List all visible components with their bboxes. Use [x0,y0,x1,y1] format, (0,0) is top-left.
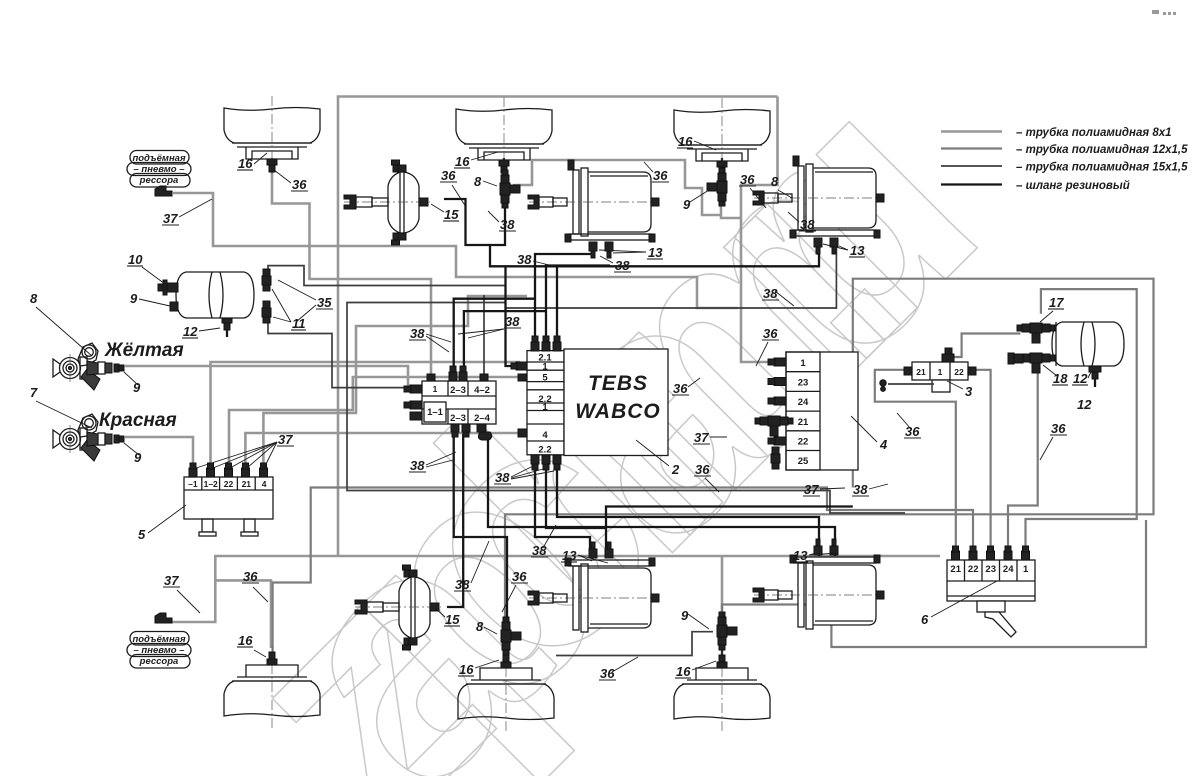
svg-text:36: 36 [653,168,668,183]
hose right chamber port1 to EBS pin3 [454,299,535,373]
svg-text:22: 22 [798,437,809,448]
callout 15 booster bottom [435,608,460,627]
callout 16 bellows1 bottom [237,633,266,657]
hose EBS pin1 down to bottom-left chamber port1 [535,470,590,557]
callout 38 right chamber hose [762,286,794,306]
wire 15x1.5 mid bus to lower long bus [347,303,905,514]
svg-text:TEBS: TEBS [588,372,648,395]
svg-text:38: 38 [455,577,470,592]
callout 36 right of TEBS loop [756,326,779,366]
svg-text:36: 36 [695,462,710,477]
callout 36 near tee8 [440,168,466,207]
wire 8x1 red coupling to block5 [125,437,193,471]
svg-text:4: 4 [262,479,267,489]
svg-text:38: 38 [853,482,868,497]
callout 37 block5 fan [196,432,294,468]
svg-text:– пневмо –: – пневмо – [133,164,185,175]
svg-text:1–2: 1–2 [204,479,218,489]
hose tee8b to bellows2 fitting [506,650,508,658]
callout 36 mid-bottom [502,569,528,612]
svg-text:4: 4 [542,430,548,441]
callout 37 right of EBS [693,430,727,445]
hose manifold pin2 tap [464,311,546,373]
wire 15x1.5 reservoir elbow11 bottom to manifold row1 [268,323,410,388]
callout 38 EBS top wires [458,314,521,338]
svg-text:36: 36 [740,172,755,187]
svg-text:25: 25 [798,456,809,467]
svg-text:36: 36 [600,666,615,681]
hose bottom-left chamber port2 to right [606,507,853,529]
svg-text:21: 21 [798,417,809,428]
coupling head red [53,414,124,461]
callout 38 below tee8 [488,211,516,232]
svg-text:4–2: 4–2 [474,385,490,396]
svg-text:12: 12 [1073,371,1088,386]
svg-text:13: 13 [793,548,808,563]
callout 36 bellows1 line [274,170,308,192]
svg-text:8: 8 [771,174,779,189]
svg-text:36: 36 [441,168,456,183]
svg-text:21: 21 [916,367,926,377]
wire 8x1 tee9 down [721,204,741,218]
wire 12x1.5 legend sample [941,147,1002,149]
lift axle oval callout bottom [127,613,191,668]
callout 9 tee9 bottom [681,608,709,629]
svg-text:13: 13 [850,243,865,258]
svg-text:2.2: 2.2 [538,444,551,455]
svg-text:8: 8 [474,174,482,189]
svg-text:подъёмная: подъёмная [132,634,186,645]
svg-text:Жёлтая: Жёлтая [104,340,184,361]
brake chamber 15 bottom [355,565,441,650]
tee 9 top [707,168,727,206]
svg-text:5: 5 [542,373,548,384]
callout 12 drain left [182,324,220,339]
lift axle oval callout top [127,151,191,197]
wire 15x1.5 legend sample [941,165,1002,167]
svg-text:36: 36 [673,381,688,396]
svg-text:13: 13 [562,548,577,563]
callout 38 left chamber hose [600,256,631,273]
wire 12x1.5 valve3 top elbow to tee17 [950,334,1021,358]
callout 36 tee18 line [1040,421,1067,460]
svg-text:–1: –1 [188,479,198,489]
hose bottom-right chamber port2 to manifold pin [488,438,835,556]
svg-text:10: 10 [128,252,143,267]
hose manifold pin down to bottom booster [447,434,463,607]
svg-text:23: 23 [985,564,996,575]
EBS port strip [511,336,564,470]
wire 8x1 block5 port2 to EBS port strip [211,362,528,471]
callout 16 bellows3 [677,134,716,150]
callout 37 below block4 [803,482,845,497]
svg-text:Красная: Красная [99,410,177,431]
reservoir left [158,272,254,337]
svg-text:23: 23 [798,378,809,389]
callout 15 booster top [431,204,459,222]
svg-text:2–3: 2–3 [450,385,466,396]
hose top booster to EBS pin2 [444,199,490,245]
svg-text:WABCO: WABCO [575,400,661,423]
svg-text:36: 36 [763,326,778,341]
wire 8x1 yellow coupling to manifold [125,366,408,386]
tee 8 top [500,170,520,208]
brake chamber 15 top [344,160,430,245]
callout 10 reservoir fitting [127,252,165,284]
svg-text:36: 36 [292,177,307,192]
wire 8x1 bellows1 to manifold [272,158,431,377]
EBS modulator TEBS WABCO box [564,349,668,456]
svg-text:37: 37 [804,482,819,497]
svg-text:2–4: 2–4 [474,413,491,424]
wire 15x1.5 reservoir elbow11 top to right chamber [268,242,836,308]
svg-text:16: 16 [238,156,253,171]
svg-text:1: 1 [433,384,438,394]
svg-text:35: 35 [317,295,332,310]
callout 18 cross [1043,365,1068,386]
wire 15x1.5 manifold fitting riser [483,295,485,377]
svg-text:9: 9 [681,608,689,623]
callout 36 bottom right line [599,657,638,681]
callout 6 block6 [921,581,997,627]
callout 8 yellow coupling [30,291,92,356]
callout 13 bottom-left chamber [561,548,608,563]
callout 38 bottom hoses [531,525,556,558]
wire 8x1 inner loop tee8 to tee9 [513,160,721,215]
svg-text:36: 36 [512,569,527,584]
hose left chamber port1 to manifold pin [535,254,594,337]
callout 36 right chamber [739,172,766,208]
hose tee8 bottom to EBS pin1 [490,206,819,266]
callout 2 EBS [636,440,680,477]
svg-text:16: 16 [455,154,470,169]
callout 16 bellows2 bottom [458,660,499,677]
air bellows bottom 2 [458,649,554,731]
wire 12x1.5 lift rear feed long diagonal loop [273,488,973,653]
svg-text:37: 37 [278,432,293,447]
svg-text:12: 12 [183,324,198,339]
svg-text:2–3: 2–3 [450,413,466,424]
air bellows top 1 [224,96,320,174]
svg-text:3: 3 [965,384,973,399]
svg-text:38: 38 [615,258,630,273]
svg-text:38: 38 [410,458,425,473]
svg-text:18: 18 [1053,371,1068,386]
svg-text:15: 15 [445,612,460,627]
svg-text:5: 5 [138,527,146,542]
callout 5 block5 [138,505,186,542]
block 4 [755,352,858,470]
callout 12 below reservoir [1077,397,1092,412]
svg-text:22: 22 [968,564,979,575]
svg-text:11: 11 [292,316,306,331]
svg-text:38: 38 [505,314,520,329]
coupling head yellow [53,343,124,390]
callout 12 beside 18 [1072,371,1091,386]
callout 13 right chamber [823,243,865,258]
callout 38 manifold wires [409,326,451,352]
svg-text:16: 16 [238,633,253,648]
callout 16 bellows1 [237,153,267,171]
callout 9 reservoir fitting [130,291,170,306]
hose EBS pin3 down to bottom-right chamber port1 [557,470,819,556]
tee 9 bottom [717,612,737,650]
callout 38 right chamber [788,212,816,232]
svg-text:17: 17 [1049,295,1064,310]
svg-text:– трубка полиамидная 12х1,5: – трубка полиамидная 12х1,5 [1016,144,1188,156]
svg-text:подъёмная: подъёмная [132,153,186,164]
svg-text:7: 7 [30,385,38,400]
hose manifold pin down to tee8b [454,434,507,629]
svg-text:22: 22 [224,479,234,489]
svg-text:16: 16 [678,134,693,149]
svg-text:21: 21 [950,564,961,575]
svg-text:1: 1 [938,367,943,377]
spring brake chamber bottom right [753,539,884,629]
elbow 11 top [262,269,271,291]
reservoir right [1052,322,1124,387]
hose EBS pin3 tap [556,266,558,337]
svg-text:15: 15 [444,207,459,222]
callout 36 below EBS [694,462,719,492]
svg-text:рессора: рессора [139,656,179,667]
wire 12x1.5 inner right loop to block6 pin1 [1026,289,1137,549]
callout 37 lift bottom [163,573,200,613]
callout 16 bellows2 [454,152,498,169]
wire 8x1 top frame [338,97,778,557]
block 5 [184,463,273,536]
legend texts [1016,127,1188,192]
air bellows bottom 1 [224,646,320,728]
wire 12x1.5 tee18 down to block6 pin24 [1008,372,1038,549]
svg-text:– трубка полиамидная 15х1,5: – трубка полиамидная 15х1,5 [1016,162,1188,174]
top-right corner marks [1152,10,1176,15]
svg-text:1: 1 [542,361,548,372]
callout 13 bottom-right chamber [792,548,838,563]
callout 9 yellow stem [124,372,141,395]
svg-text:9: 9 [133,380,141,395]
spring brake chamber top left [528,160,659,258]
wire 15x1.5 vertical x505 [506,266,517,366]
svg-text:38: 38 [517,252,532,267]
svg-text:38: 38 [410,326,425,341]
callout 4 block4 [851,416,888,452]
hose left chamber port2 to manifold pin2 [546,266,610,338]
callout 36 bellows1 bottom [242,569,268,602]
svg-text:рессора: рессора [139,175,179,186]
air bellows top 2 [456,97,552,175]
svg-text:36: 36 [243,569,258,584]
svg-text:22: 22 [954,367,964,377]
hose EBS pin2 down to bottom-left chamber port2 [546,470,606,557]
svg-text:12: 12 [1077,397,1092,412]
elbow 11 bottom [262,301,271,323]
svg-text:24: 24 [798,397,809,408]
wire 8x1 tee9b up to lift line [721,556,724,618]
callout 11 elbows [272,289,306,331]
svg-text:16: 16 [459,662,474,677]
callout 9 red stem [124,443,142,465]
callout 13 left chamber [599,245,663,260]
callout 7 red coupling [30,385,92,428]
callout 37 lift line top [162,199,212,226]
svg-text:9: 9 [130,291,138,306]
valve 3 [880,348,976,392]
callout 9 tee9 [683,190,709,212]
callout 36 right of TEBS box [672,378,700,396]
callout 38 pin3 line [516,252,553,267]
svg-text:38: 38 [763,286,778,301]
svg-text:37: 37 [163,211,178,226]
svg-text:38: 38 [495,470,510,485]
wire 8x1 bottom-left bellows riser [215,580,271,648]
svg-text:2: 2 [671,462,680,477]
air bellows bottom 3 [674,649,770,731]
callout 16 bellows3 bottom [675,661,716,679]
callout 35 line [278,280,333,322]
svg-text:16: 16 [676,664,691,679]
callout 38 EBS bottom wires [494,466,554,485]
svg-text:4: 4 [879,437,888,452]
callout 38 left gray lines [409,452,456,473]
tee 17 [1017,323,1055,343]
svg-text:– шланг резиновый: – шланг резиновый [1016,180,1130,192]
svg-text:1: 1 [1023,564,1029,575]
hose legend sample [941,183,1002,185]
svg-text:9: 9 [683,197,691,212]
callout 38 below block4 [852,482,888,497]
wire 12x1.5 big right loop [505,279,1154,623]
hose bellows2 fitting to tee8 [503,158,505,172]
callout 38 bottom band [454,541,489,592]
callout 36 inner loop [644,162,669,183]
wire 8x1 block5 port3 to EBS strip row2 [229,377,527,471]
wire 12x1.5 bottom right bellows loop [722,520,1146,647]
svg-text:36: 36 [1051,421,1066,436]
callout 8 tee top [474,174,497,189]
svg-text:36: 36 [905,424,920,439]
svg-text:– пневмо –: – пневмо – [133,645,185,656]
svg-text:13: 13 [648,245,663,260]
wire 8x1 lift axle top line 37 [173,193,738,308]
svg-text:37: 37 [694,430,709,445]
callout 17 tee [1040,295,1064,322]
wire 8x1 right of top frame to block4 port1 [741,97,778,363]
svg-text:– трубка полиамидная 8х1: – трубка полиамидная 8х1 [1016,127,1172,139]
svg-text:1: 1 [542,402,548,413]
svg-text:1–1: 1–1 [427,407,444,418]
spring brake chamber top right [753,156,884,254]
callout 36 right mid [897,413,921,439]
svg-text:38: 38 [800,217,815,232]
cross 18 [1008,353,1055,373]
tee 8 bottom [501,617,521,655]
wire 8x1 block5 port4 to EBS strip row4 [245,433,519,471]
svg-text:1: 1 [800,358,806,369]
manifold block [404,366,496,440]
wire 15x1.5 tee9b to bellows2 [556,632,713,656]
callout 3 valve [947,381,973,399]
spring brake chamber bottom left [528,542,659,632]
drain valve 12 right reservoir [1089,366,1101,372]
wire 8x1 legend sample [941,130,1002,133]
svg-text:37: 37 [164,573,179,588]
block 6 [947,546,1035,637]
svg-text:8: 8 [30,291,38,306]
air bellows top 3 [674,98,770,176]
svg-text:8: 8 [476,619,484,634]
wire 12x1.5 valve3 right port down to block6 pin23 [968,370,991,549]
wire 8x1 lift axle bottom line [165,556,940,622]
wire 8x1 block5 port5 riser [263,296,527,471]
svg-text:21: 21 [242,479,252,489]
svg-text:24: 24 [1003,564,1014,575]
callout 8 tee8 bottom [476,619,497,634]
svg-text:6: 6 [921,612,929,627]
wire 12x1.5 valve3 to block6 pin21 [875,370,956,549]
svg-text:38: 38 [500,217,515,232]
callout 8 right chamber [771,174,792,198]
hose tee9b to bellows3 fitting [721,647,723,655]
hose bellows3 fitting to tee9 [721,158,723,172]
